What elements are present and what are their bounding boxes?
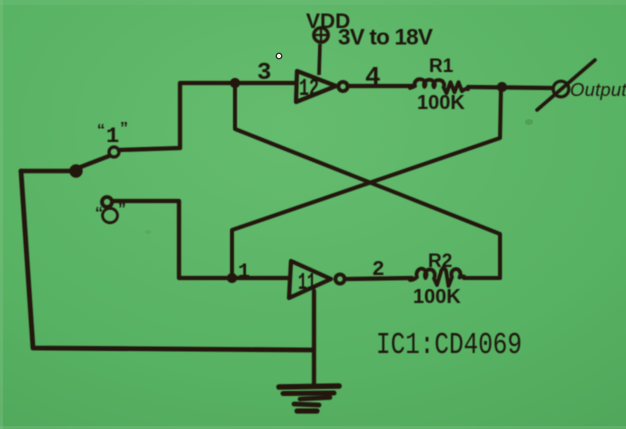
- svg-text:R1: R1: [429, 56, 454, 77]
- wire pole-left: [21, 169, 76, 174]
- svg-text:3V to 18V: 3V to 18V: [338, 25, 433, 50]
- ground: [279, 386, 339, 411]
- switch contact 0: [102, 197, 112, 207]
- svg-text:“: “: [97, 122, 105, 139]
- white speck: [276, 53, 283, 60]
- svg-text:3: 3: [257, 60, 271, 87]
- svg-text:IC1:CD4069: IC1:CD4069: [376, 328, 522, 363]
- svg-text:4: 4: [365, 62, 381, 92]
- svg-text:”: ”: [120, 120, 128, 137]
- wire contact1 to pin3: [119, 83, 296, 150]
- wire R1 to output node: [468, 87, 552, 88]
- switch contact 1: [109, 147, 119, 157]
- resistor R1: [410, 79, 468, 93]
- svg-text:12: 12: [299, 76, 319, 103]
- svg-text:R2: R2: [428, 251, 452, 272]
- svg-text:100K: 100K: [413, 286, 461, 308]
- wire ground stem: [312, 291, 316, 385]
- wire contact0 to pin1: [113, 201, 289, 278]
- output probe circle: [553, 81, 569, 97]
- wire pin4 output: [349, 84, 412, 88]
- node junction pin1: [227, 273, 237, 283]
- wire crossB node4 to pin1: [232, 88, 501, 277]
- svg-text:”: ”: [118, 201, 126, 218]
- svg-text:Output: Output: [570, 79, 626, 100]
- output probe slash: [537, 60, 595, 110]
- inverter 11 bubble: [335, 274, 344, 283]
- wire left-side loop: [21, 171, 313, 350]
- svg-text:11: 11: [298, 270, 316, 297]
- resistor R2: [410, 268, 464, 287]
- faint smudge left: [145, 230, 151, 234]
- switch arm: [78, 156, 109, 168]
- inverter U1 gate11 triangle: [289, 261, 331, 298]
- svg-text:100K: 100K: [417, 92, 465, 114]
- node junction pin3: [230, 78, 240, 88]
- VDD symbol: [314, 28, 328, 75]
- inverter 12 bubble: [338, 82, 347, 91]
- inverter U1 gate12 triangle: [296, 71, 336, 102]
- switch pole dot: [72, 167, 81, 176]
- faint smudge below slash: [525, 119, 533, 125]
- svg-text:1: 1: [106, 124, 119, 149]
- svg-text:1: 1: [238, 261, 250, 284]
- wire crossA node3 to R2right: [235, 85, 500, 278]
- svg-text:2: 2: [372, 259, 385, 282]
- node junction output: [497, 82, 507, 92]
- wire pin2 to R2: [347, 278, 412, 279]
